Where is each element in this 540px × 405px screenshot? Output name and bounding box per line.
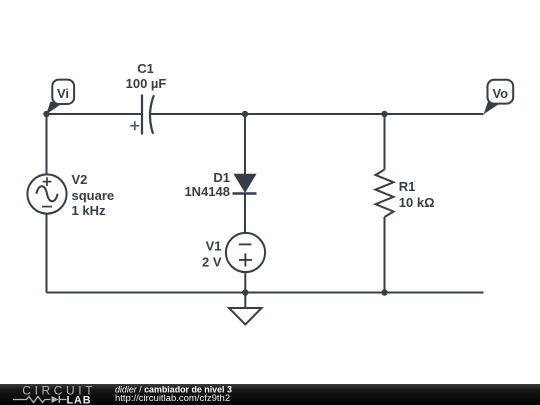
node dot top middle [242, 111, 248, 117]
wire top middle (C1 to D1 node) [151, 113, 246, 115]
svg-text:1N4148: 1N4148 [184, 184, 230, 199]
node label Vo [484, 80, 514, 114]
wire V1 to bottom rail [244, 272, 246, 293]
svg-text:V2: V2 [72, 172, 88, 187]
wire right vertical upper (node to R1) [384, 114, 386, 170]
voltage source V2 [27, 172, 114, 218]
svg-text:1 kHz: 1 kHz [72, 203, 106, 218]
wire middle vertical upper (node to D1) [244, 114, 246, 175]
wire left vertical upper (Vi node to V2) [46, 114, 48, 175]
svg-text:R1: R1 [399, 179, 416, 194]
node dot bottom right [381, 289, 387, 295]
node dot bottom middle [242, 289, 248, 295]
node dot top right [381, 111, 387, 117]
svg-text:100 µF: 100 µF [126, 76, 167, 91]
footer title text [115, 384, 232, 404]
resistor R1 [376, 170, 435, 218]
wire left vertical lower (V2 to bottom rail) [46, 214, 48, 293]
footer bar [0, 384, 540, 405]
capacitor C1 [126, 61, 167, 135]
svg-text:2 V: 2 V [202, 254, 222, 269]
CircuitLab logo [13, 384, 96, 405]
svg-text:Vo: Vo [492, 86, 508, 101]
ground [229, 293, 262, 325]
wire top left (Vi node to C1) [47, 113, 143, 115]
wire D1 to V1 [244, 194, 246, 234]
svg-text:Vi: Vi [57, 86, 69, 101]
svg-text:LAB: LAB [67, 395, 92, 405]
node dot Vi [43, 111, 49, 117]
svg-text:square: square [72, 188, 115, 203]
svg-text:10 kΩ: 10 kΩ [399, 195, 435, 210]
diode D1 [184, 170, 256, 199]
svg-text:C1: C1 [137, 61, 154, 76]
svg-text:D1: D1 [213, 170, 230, 185]
wire right vertical lower (R1 to bottom rail) [384, 217, 386, 293]
node label Vi [46, 80, 74, 115]
wire top right (D1 node to R1 node) [245, 113, 385, 115]
svg-text:V1: V1 [206, 239, 222, 254]
wire top far right (R1 node to Vo) [385, 113, 484, 115]
voltage source V1 [202, 233, 265, 272]
wire bottom rail [47, 292, 484, 294]
svg-text:http://circuitlab.com/cfz9th2: http://circuitlab.com/cfz9th2 [115, 393, 230, 404]
